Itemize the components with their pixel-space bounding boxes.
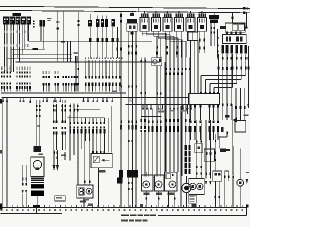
svg-text:©: © (129, 97, 134, 104)
